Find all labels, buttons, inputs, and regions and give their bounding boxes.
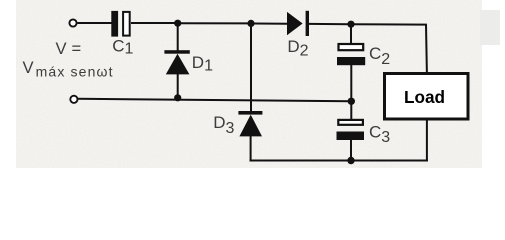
wire: C2 bottom to node C: [350, 65, 352, 102]
wire: node B to C2 top: [350, 24, 352, 44]
wire: C1 to node A: [131, 22, 178, 24]
junction: C3 / bottom rail: [347, 157, 354, 164]
capacitor C1: [111, 11, 129, 37]
svg-text:C1: C1: [112, 37, 133, 58]
wire: node C to C3 top: [350, 102, 352, 121]
wire: node A to D1 cathode: [177, 23, 179, 51]
wire: D2 cathode to node B: [309, 23, 351, 25]
capacitor C2: [337, 44, 365, 65]
wire: middle rail: [78, 99, 351, 102]
wire: bottom rail: [250, 160, 428, 162]
capacitor C3: [337, 120, 365, 140]
wire: node A to D3 tap: [178, 22, 251, 24]
wire: D3 anode to bottom rail corner: [250, 136, 252, 162]
junction: D1 / middle rail: [174, 94, 181, 101]
wire: load bottom to bottom rail: [426, 119, 428, 162]
input terminal (bottom): [70, 96, 77, 103]
load box: [385, 74, 469, 120]
input terminal (top): [69, 19, 76, 26]
junction: node B (D2/C2): [347, 21, 354, 28]
wire: C3 bottom to bottom rail: [350, 140, 352, 161]
wire: node B to load top: [351, 24, 427, 73]
diode D1: [164, 50, 189, 74]
svg-text:Load: Load: [404, 87, 445, 107]
wire: D3 branch (crosses middle rail): [250, 23, 252, 111]
wire: D1 anode to middle rail: [177, 74, 179, 98]
junction: D3 branch tap: [247, 20, 254, 27]
diode D3: [238, 111, 262, 136]
junction: node C (middle rail / C2 / C3): [348, 98, 355, 105]
wire: tap to D2 anode: [251, 23, 287, 25]
wire: top terminal to C1: [78, 22, 112, 24]
diode D2: [287, 11, 309, 36]
junction: node A (C1/D1): [174, 20, 181, 27]
